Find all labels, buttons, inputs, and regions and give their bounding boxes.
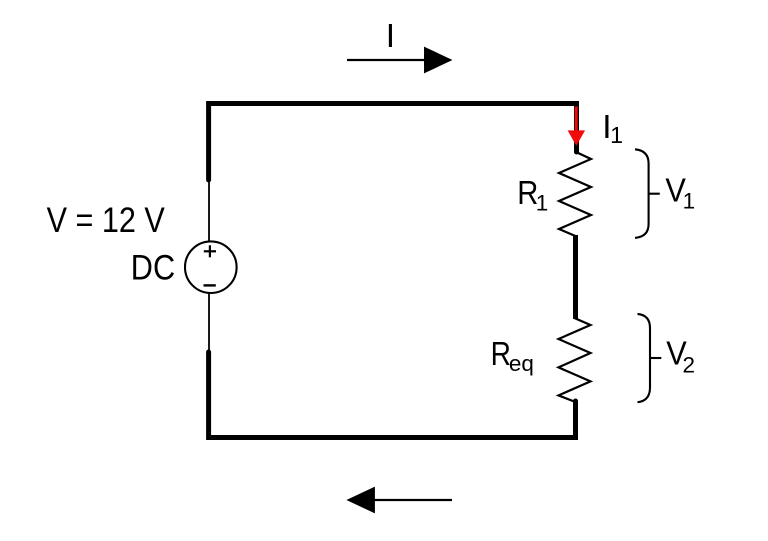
- wire: bottom + lower corners (thick loop segment): [209, 352, 576, 438]
- wire: thin lead from source bottom to left lower wire: [208, 294, 210, 353]
- svg-text:DC: DC: [131, 247, 175, 287]
- resistor Req (zigzag): [559, 318, 591, 402]
- minus sign inside source: [204, 284, 216, 286]
- svg-text:I: I: [386, 18, 395, 55]
- resistor R1 (zigzag): [559, 151, 591, 236]
- voltage source V (circle): [185, 241, 237, 293]
- arrow: bottom return direction (left): [346, 487, 452, 514]
- brace for V2: [638, 314, 651, 402]
- tick on V2 brace: [650, 357, 661, 359]
- red arrow I1 (branch current into R1): [568, 107, 586, 146]
- wire: middle right (between R1 and Req, thick): [573, 235, 578, 319]
- tick on V1 brace: [649, 193, 660, 195]
- brace for V1: [635, 149, 649, 238]
- svg-text:V = 12 V: V = 12 V: [47, 200, 165, 240]
- plus sign inside source: [204, 245, 216, 257]
- arrow: top current direction (right): [347, 47, 453, 74]
- wire: thin lead from left wire to source top: [208, 178, 210, 241]
- wire: top + left upper + right upper (thick loop segment): [209, 104, 577, 181]
